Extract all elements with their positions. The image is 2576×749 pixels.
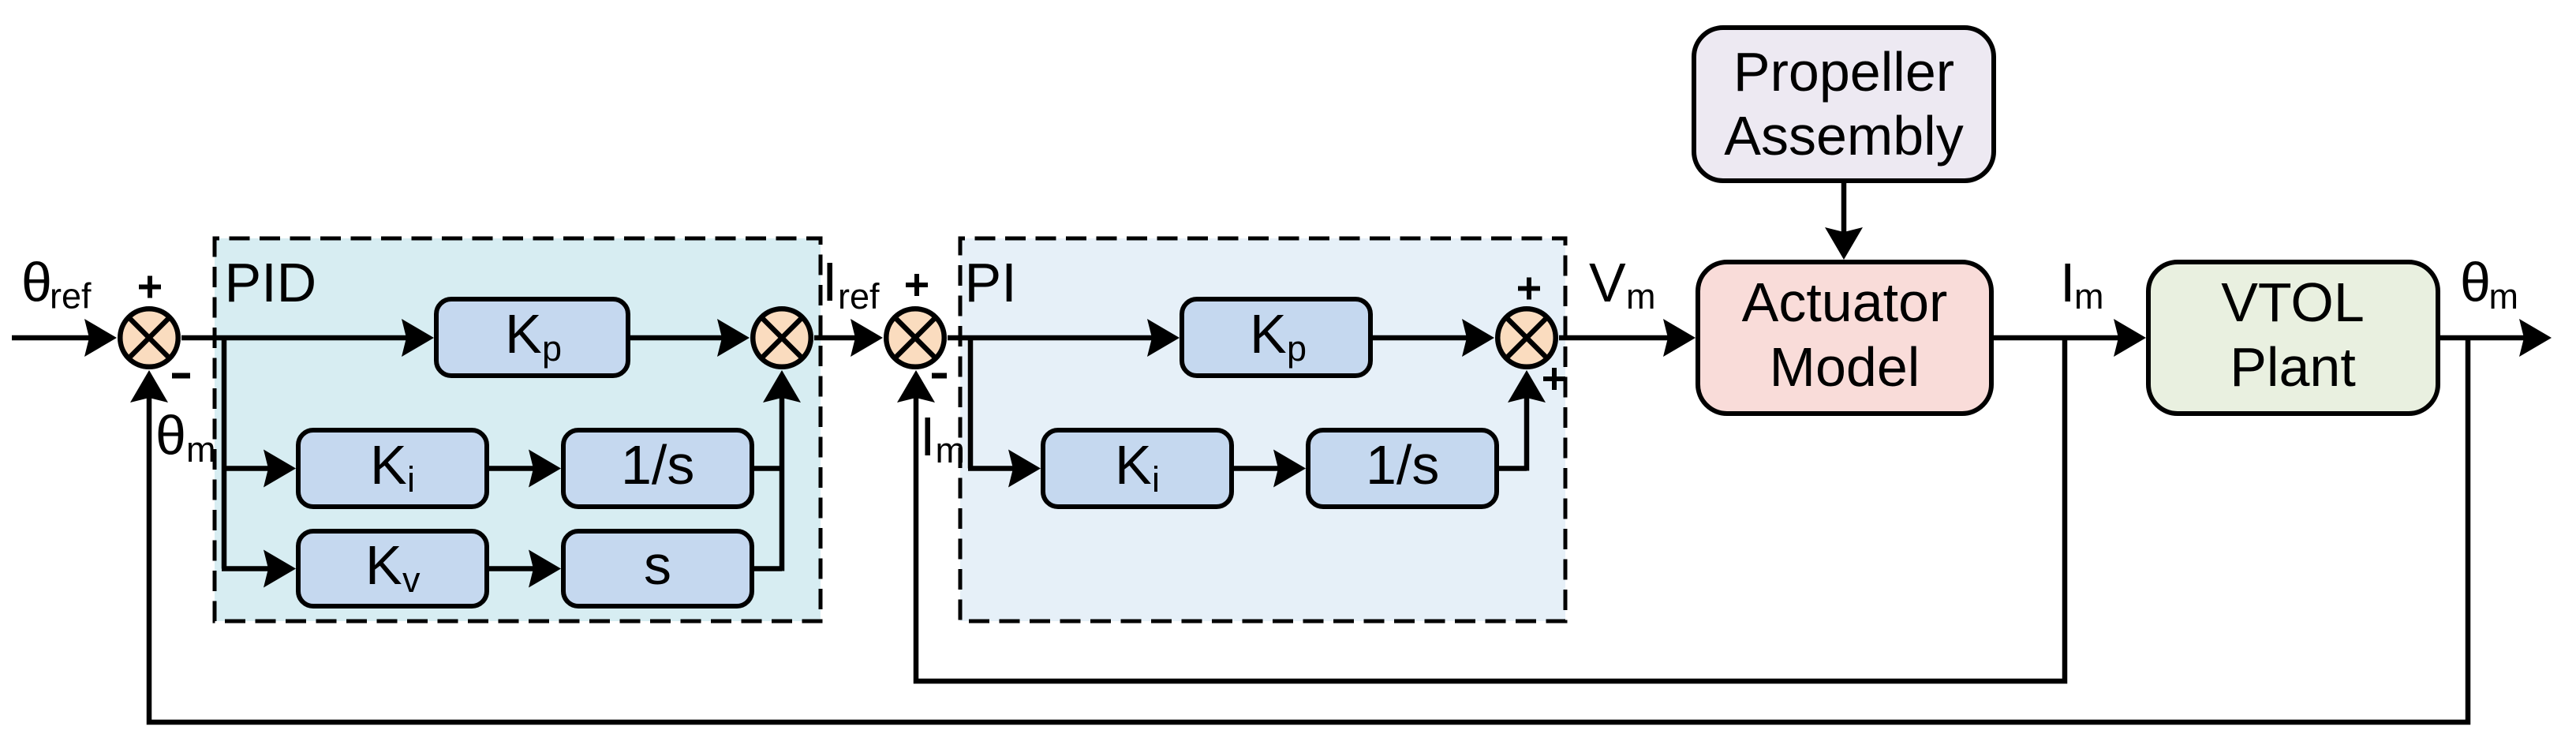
output wire from VTOL Plant <box>2440 319 2552 357</box>
wire: S1 to block Kp PID <box>181 319 434 357</box>
S3 minus sign <box>932 373 947 379</box>
svg-text:s: s <box>644 534 671 596</box>
label Im above wire <box>2060 252 2104 316</box>
label theta_m at S1 feedback <box>155 405 216 470</box>
svg-text:θ: θ <box>2460 252 2491 313</box>
branch wire to Kv PID <box>222 550 296 588</box>
svg-text:Model: Model <box>1770 336 1920 398</box>
PI controller dashed box <box>960 238 1565 621</box>
svg-text:ref: ref <box>50 276 92 316</box>
branch wire to Ki PI <box>968 450 1041 488</box>
block Kv PID <box>298 531 487 606</box>
svg-text:θ: θ <box>155 405 186 466</box>
svg-text:K: K <box>1115 434 1152 496</box>
svg-text:m: m <box>936 430 966 470</box>
wire S3 to block Kp PI <box>948 319 1180 357</box>
wire Ki to 1/s PI <box>1234 450 1306 488</box>
wire S2 to S3 <box>814 319 883 357</box>
wire S4 to Actuator Model <box>1559 319 1696 357</box>
collector wire up to S2 <box>763 370 801 571</box>
S4 plus sign top <box>1518 278 1540 300</box>
S3 plus sign <box>906 274 928 296</box>
block 1/s PI <box>1308 430 1497 507</box>
wire s output to collector PID <box>754 566 782 571</box>
svg-text:I: I <box>822 251 837 313</box>
svg-text:K: K <box>505 303 542 365</box>
svg-text:m: m <box>2074 276 2104 316</box>
summing junction S2 <box>753 309 811 367</box>
output label theta_m <box>2460 252 2518 317</box>
wire Kp PI to S4 <box>1373 319 1494 357</box>
svg-text:I: I <box>920 406 935 467</box>
summing junction S4 <box>1497 309 1556 367</box>
summing junction S1 <box>120 309 178 367</box>
block Kp PI <box>1182 299 1370 376</box>
Propeller Assembly block <box>1694 28 1994 181</box>
wire Actuator Model to VTOL Plant <box>1994 319 2146 357</box>
svg-text:Actuator: Actuator <box>1742 272 1948 333</box>
label Iref <box>822 251 880 316</box>
block Kp PID <box>436 299 628 376</box>
svg-text:θ: θ <box>21 252 52 313</box>
svg-text:V: V <box>1589 252 1626 313</box>
inner feedback wire Im to S3 <box>897 338 2065 681</box>
svg-text:m: m <box>2489 276 2519 316</box>
label PID <box>225 252 317 313</box>
svg-text:ref: ref <box>838 276 880 316</box>
svg-text:K: K <box>365 534 402 596</box>
svg-text:K: K <box>1250 303 1287 365</box>
PID controller dashed box <box>215 238 821 621</box>
svg-text:p: p <box>542 328 562 369</box>
svg-text:i: i <box>1152 459 1160 500</box>
branch wire vertical PID <box>222 338 227 569</box>
collector wire up to S4 <box>1508 370 1546 471</box>
wire Kv to s PID <box>489 550 561 588</box>
wire Ki to 1/s PID <box>489 450 561 488</box>
label Im at S3 feedback <box>920 406 965 470</box>
block 1/s PID <box>563 430 752 507</box>
svg-text:m: m <box>1626 276 1656 316</box>
wire 1/s output to collector PID <box>754 466 782 471</box>
svg-text:I: I <box>2060 252 2075 313</box>
input signal label theta_ref <box>21 252 92 316</box>
svg-text:i: i <box>407 459 415 500</box>
branch wire to Ki PID <box>222 450 296 488</box>
S4 plus sign bottom <box>1543 368 1565 390</box>
svg-text:Assembly: Assembly <box>1724 105 1963 167</box>
svg-text:p: p <box>1287 328 1307 369</box>
svg-text:PI: PI <box>965 252 1017 313</box>
svg-text:m: m <box>186 429 216 470</box>
svg-text:v: v <box>402 560 421 600</box>
label Vm <box>1589 252 1656 316</box>
S1 minus sign <box>172 373 190 379</box>
svg-text:1/s: 1/s <box>1366 434 1439 496</box>
svg-text:1/s: 1/s <box>621 434 694 496</box>
summing junction S3 <box>886 309 944 367</box>
wire: input to summing junction S1 <box>12 319 117 357</box>
outer feedback wire theta_m to S1 <box>130 338 2468 722</box>
svg-text:K: K <box>370 434 407 496</box>
S1 plus sign <box>139 276 161 298</box>
VTOL Plant block <box>2148 262 2438 414</box>
wire Kp to S2 <box>629 319 750 357</box>
wire Propeller Assembly to Actuator Model <box>1825 183 1863 260</box>
block Ki PI <box>1043 430 1232 507</box>
branch wire vertical PI <box>968 338 974 469</box>
Actuator Model block <box>1698 262 1991 414</box>
block s PID <box>563 531 752 606</box>
svg-text:Plant: Plant <box>2230 336 2356 398</box>
wire 1/s output to collector PI <box>1499 466 1527 471</box>
block Ki PID <box>298 430 487 507</box>
label PI <box>965 252 1017 313</box>
svg-text:Propeller: Propeller <box>1733 41 1954 103</box>
svg-text:VTOL: VTOL <box>2221 272 2365 333</box>
svg-text:PID: PID <box>225 252 317 313</box>
